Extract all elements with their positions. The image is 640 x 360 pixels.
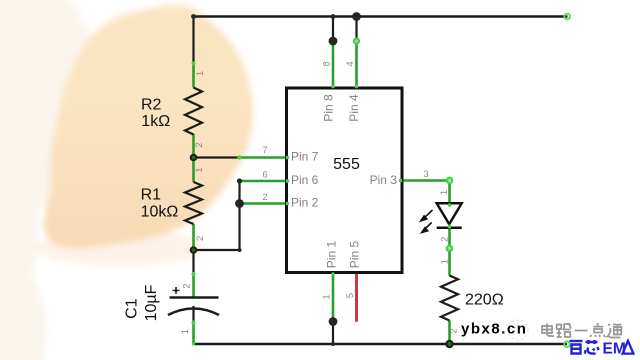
svg-text:2: 2 — [440, 237, 451, 242]
svg-text:1: 1 — [195, 71, 206, 76]
svg-text:1: 1 — [439, 190, 450, 195]
svg-text:8: 8 — [322, 61, 333, 66]
svg-text:2: 2 — [194, 142, 205, 147]
svg-text:1: 1 — [194, 167, 205, 172]
svg-text:4: 4 — [345, 61, 356, 66]
svg-text:7: 7 — [262, 145, 267, 156]
svg-text:ybx8.cn: ybx8.cn — [461, 321, 527, 338]
svg-text:Pin 2: Pin 2 — [291, 196, 319, 210]
svg-text:1: 1 — [322, 294, 333, 299]
svg-text:Pin 4: Pin 4 — [347, 94, 361, 122]
svg-text:220Ω: 220Ω — [465, 291, 504, 308]
svg-text:C1: C1 — [124, 298, 141, 319]
svg-text:3: 3 — [423, 169, 428, 180]
svg-text:10kΩ: 10kΩ — [141, 203, 179, 220]
svg-text:Pin 8: Pin 8 — [322, 94, 336, 122]
svg-text:EM: EM — [603, 341, 626, 358]
svg-text:10µF: 10µF — [143, 284, 160, 321]
svg-text:Pin 5: Pin 5 — [348, 241, 362, 269]
svg-text:R1: R1 — [141, 187, 162, 204]
svg-text:Pin 7: Pin 7 — [291, 149, 319, 163]
svg-text:5: 5 — [345, 293, 356, 298]
svg-text:555: 555 — [333, 156, 360, 173]
svg-text:2: 2 — [195, 236, 206, 241]
svg-text:1: 1 — [440, 259, 451, 264]
svg-text:Pin 3: Pin 3 — [370, 173, 398, 187]
svg-text:1: 1 — [180, 329, 191, 334]
svg-text:Pin 6: Pin 6 — [291, 173, 319, 187]
svg-text:R2: R2 — [141, 97, 162, 114]
svg-text:2: 2 — [262, 192, 267, 203]
svg-text:Pin 1: Pin 1 — [325, 241, 339, 269]
svg-text:6: 6 — [262, 170, 267, 181]
svg-text:1kΩ: 1kΩ — [141, 113, 170, 130]
svg-text:2: 2 — [449, 328, 460, 333]
svg-text:2: 2 — [182, 283, 193, 288]
